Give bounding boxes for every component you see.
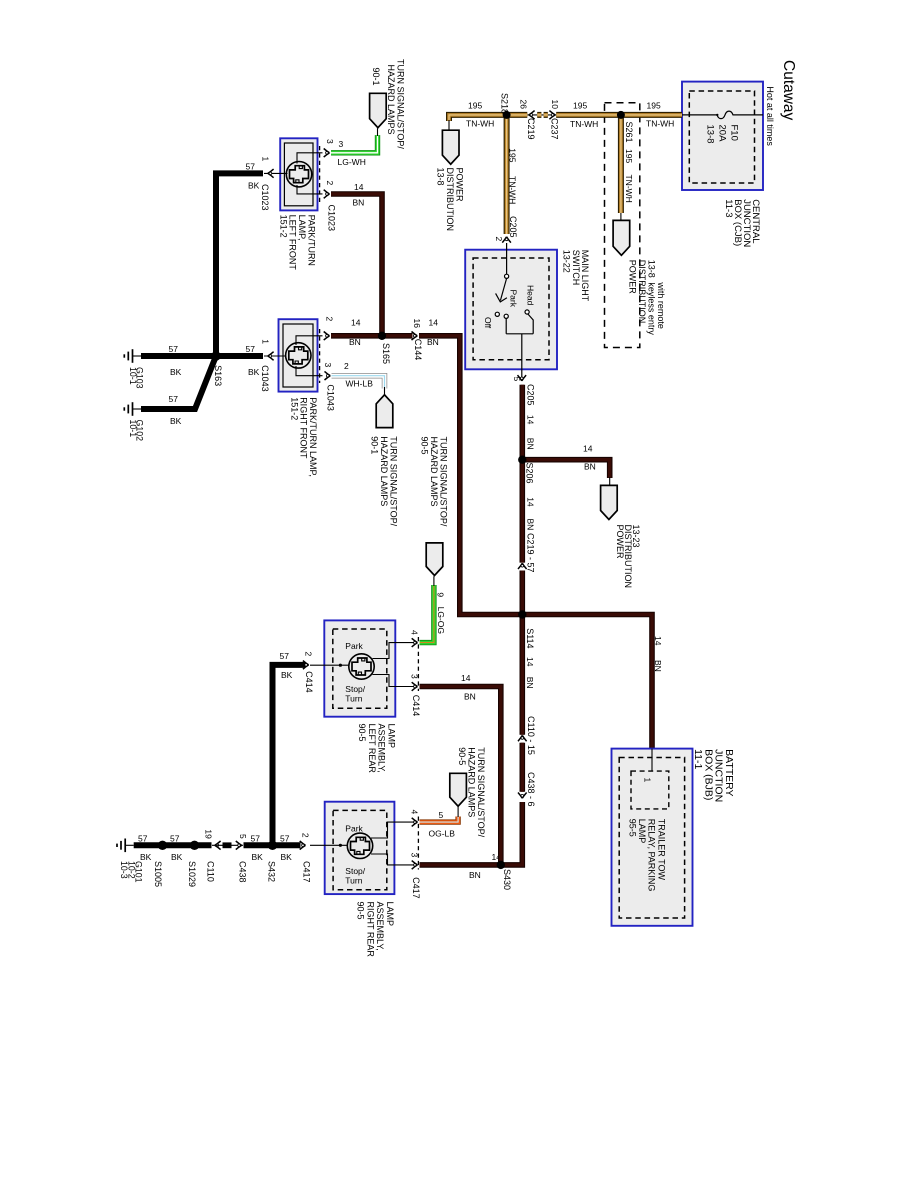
svg-text:C414: C414 (411, 695, 421, 717)
svg-text:BN: BN (525, 438, 535, 450)
lamp assembly right rear box (325, 802, 395, 894)
svg-text:13-22: 13-22 (561, 250, 571, 273)
svg-text:TURN SIGNAL/STOP/: TURN SIGNAL/STOP/ (396, 59, 406, 149)
splice S218 (503, 111, 511, 119)
svg-text:11-3: 11-3 (723, 199, 734, 217)
off-page arrow turn signal 90-1a (370, 93, 387, 127)
svg-text:195: 195 (468, 101, 482, 111)
svg-text:C417: C417 (411, 877, 421, 899)
pin1 lead leftfront (264, 172, 288, 174)
lamp rightrear pin4 link (371, 822, 414, 838)
connector C1043 pin 3 (325, 371, 331, 380)
svg-text:151-2: 151-2 (289, 397, 299, 420)
svg-text:Park: Park (508, 290, 518, 308)
svg-text:TURN SIGNAL/STOP/: TURN SIGNAL/STOP/ (476, 747, 486, 837)
svg-text:POWER: POWER (615, 525, 625, 560)
svg-text:S261: S261 (624, 122, 634, 143)
svg-text:57: 57 (246, 344, 256, 354)
connector C414 pin 3 (412, 682, 418, 691)
connector C1023 pin 1 (268, 169, 274, 178)
svg-text:S432: S432 (267, 861, 277, 882)
switch output lead (521, 334, 523, 377)
svg-text:BN: BN (584, 462, 596, 472)
svg-text:S206: S206 (524, 463, 534, 484)
svg-text:14: 14 (525, 415, 535, 425)
dashed box with remote keyless entry (605, 103, 640, 348)
svg-text:Turn: Turn (345, 694, 362, 704)
svg-text:C110 - 15: C110 - 15 (526, 716, 536, 755)
svg-text:11-1: 11-1 (692, 749, 704, 769)
lamp leftrear pin3 link (373, 675, 415, 687)
BJB internal lead (651, 749, 653, 772)
central junction box (CJB) (682, 82, 763, 190)
connector C237 (549, 111, 555, 120)
connector C205 pin 5 (518, 375, 527, 381)
fuse F10 element (682, 111, 763, 119)
svg-text:HAZARD LAMPS: HAZARD LAMPS (386, 65, 396, 135)
svg-text:OG-LB: OG-LB (429, 829, 456, 839)
lead to turnsignal arrow 90-5b (457, 807, 459, 817)
svg-text:C237: C237 (550, 118, 560, 140)
svg-text:TN-WH: TN-WH (507, 176, 517, 204)
svg-text:14: 14 (429, 318, 439, 328)
wire 195 TN-WH CJB to C237 (556, 112, 682, 118)
svg-text:BK: BK (171, 852, 183, 862)
svg-text:20A: 20A (717, 125, 728, 143)
lamp rightfront pin2 link (296, 336, 323, 345)
svg-text:95-5: 95-5 (628, 819, 638, 837)
thin line through C110/C438 (212, 844, 243, 846)
wire 3 LG-WH (331, 135, 378, 153)
svg-text:BN: BN (464, 691, 476, 701)
splice dot rightrear (339, 844, 342, 847)
svg-text:S1029: S1029 (187, 861, 197, 887)
park/turn lamp left front box (280, 138, 317, 210)
svg-text:5: 5 (238, 834, 248, 839)
svg-text:195: 195 (507, 148, 517, 162)
svg-text:90-1: 90-1 (370, 436, 380, 454)
svg-text:HAZARD LAMPS: HAZARD LAMPS (466, 747, 476, 817)
ground G103 (124, 349, 141, 363)
wire 2 WH-LB (332, 376, 385, 389)
svg-text:BN: BN (469, 870, 481, 880)
svg-text:C1043: C1043 (260, 365, 270, 392)
wire 14 BN S165 to C144 (382, 333, 413, 339)
svg-text:C438: C438 (237, 861, 247, 883)
switch input lead (506, 243, 508, 274)
wire 14 BN rightfront pin2 (331, 333, 382, 339)
svg-text:13-8: 13-8 (705, 125, 716, 144)
wire 14 BN C438-6 to S430 (420, 802, 523, 865)
svg-text:90-5: 90-5 (357, 724, 367, 742)
connector C1043 pin 1 (268, 352, 274, 361)
lamp leftrear pin4 link (373, 643, 415, 659)
park contact lead (505, 319, 507, 334)
wire 57 BK S163 to G102 (141, 356, 216, 409)
svg-text:BN: BN (349, 337, 361, 347)
svg-text:S165: S165 (381, 343, 391, 364)
svg-text:57: 57 (170, 833, 180, 843)
svg-text:Hot at all times: Hot at all times (765, 86, 775, 146)
switch contact Park (504, 314, 508, 318)
ground G101 (117, 839, 134, 853)
svg-text:Head: Head (525, 285, 535, 306)
lead to power dist 13-23 arrow (609, 477, 611, 485)
svg-text:with remote: with remote (656, 281, 666, 329)
svg-text:26: 26 (518, 100, 528, 110)
svg-text:90-5: 90-5 (457, 747, 467, 765)
svg-text:90-5: 90-5 (420, 437, 430, 455)
svg-text:3: 3 (409, 853, 419, 858)
connector C144 (412, 332, 418, 341)
svg-text:14: 14 (525, 497, 535, 507)
svg-text:2: 2 (325, 317, 335, 322)
svg-text:BK: BK (170, 367, 182, 377)
svg-text:1: 1 (260, 339, 270, 344)
svg-text:90-5: 90-5 (356, 902, 366, 920)
svg-text:BK: BK (248, 367, 260, 377)
wire 14 BN C205 to S206 (519, 385, 525, 460)
svg-text:HAZARD LAMPS: HAZARD LAMPS (429, 437, 439, 507)
svg-text:C144: C144 (413, 339, 423, 361)
wire 14 BN leftrear pin3 (420, 687, 501, 863)
wire 57 BK S163 to rightfront (219, 353, 263, 359)
wire 14 BN S206 branch (522, 460, 609, 478)
lamp leftfront pin2 link (297, 185, 323, 194)
svg-text:TN-WH: TN-WH (624, 175, 634, 203)
svg-text:LAMP: LAMP (637, 819, 647, 844)
svg-text:90-1: 90-1 (371, 68, 381, 86)
svg-text:Park: Park (345, 824, 363, 834)
wire 195 TN-WH S261 drop (618, 115, 624, 213)
svg-text:5: 5 (512, 377, 522, 382)
svg-text:ASSEMBLY,: ASSEMBLY, (377, 724, 387, 773)
lamp leftfront pin3 link (297, 153, 323, 164)
lead to power dist arrow2 (620, 213, 622, 220)
wire 14 BN pin2 leftfront (331, 194, 382, 336)
splice S1029 (190, 841, 199, 850)
svg-text:Stop/: Stop/ (345, 866, 365, 876)
head contact lead (528, 314, 533, 334)
svg-text:10-1: 10-1 (128, 420, 138, 438)
svg-text:Cutaway: Cutaway (780, 60, 797, 121)
svg-text:LEFT REAR: LEFT REAR (367, 724, 377, 774)
svg-text:5: 5 (439, 810, 444, 820)
off-page arrow turn signal 90-5b (450, 773, 467, 806)
connector C438-6 (518, 793, 527, 799)
svg-text:57: 57 (169, 394, 179, 404)
svg-text:57: 57 (280, 651, 290, 661)
lamp symbol left front (286, 162, 311, 187)
connector C110 (215, 841, 221, 850)
svg-text:4: 4 (409, 810, 419, 815)
lamp rightfront pin3 link (296, 366, 323, 376)
splice dot leftrear (339, 664, 342, 667)
svg-text:TN-WH: TN-WH (570, 119, 598, 129)
lamp assembly left rear box (324, 620, 395, 716)
wire 14 BN S114 to BJB (522, 615, 652, 749)
connector C1043 pin 2 (324, 332, 330, 341)
svg-text:14: 14 (653, 636, 663, 646)
connector C1023 pin 3 (324, 149, 330, 158)
off-page arrow power distribution (top) (442, 130, 459, 164)
svg-text:10-3: 10-3 (119, 861, 129, 879)
wire 57 BK S432 to C414 (273, 665, 306, 842)
svg-text:1: 1 (643, 778, 653, 783)
lamp symbol right front (286, 343, 311, 368)
switch contact Off (495, 312, 499, 316)
wire 195 TN-WH corner to S218 (449, 115, 507, 121)
svg-text:1: 1 (260, 157, 270, 162)
svg-text:14: 14 (461, 673, 471, 683)
connector C417 pin 3 (412, 861, 418, 870)
wire 57 BK C438 to C417 (244, 842, 301, 848)
svg-text:9: 9 (436, 592, 446, 597)
main light switch box (465, 250, 557, 370)
connector C205 pin 2 (502, 237, 511, 243)
off-page arrow power distribution (keyless) (613, 220, 630, 255)
svg-text:10: 10 (550, 100, 560, 110)
BK dash segment (223, 842, 232, 848)
svg-text:TRAILER TOW: TRAILER TOW (656, 819, 666, 881)
svg-text:57: 57 (280, 833, 290, 843)
off-page arrow turn signal 90-1b (376, 395, 393, 428)
svg-text:195: 195 (647, 101, 661, 111)
thin line through C237/C219 (528, 114, 557, 116)
svg-text:TURN SIGNAL/STOP/: TURN SIGNAL/STOP/ (389, 436, 399, 526)
connector C110-15 (518, 735, 527, 741)
svg-text:BK: BK (170, 416, 182, 426)
svg-text:WH-LB: WH-LB (346, 379, 374, 389)
svg-text:BK: BK (281, 670, 293, 680)
switch blade arrowhead (496, 293, 507, 302)
ground G102 (124, 402, 141, 416)
splice S1005 (158, 841, 167, 850)
connector C1043 dashed line (319, 329, 321, 383)
wire 9 LG-OG (420, 585, 434, 643)
svg-text:DISTRIBUTION: DISTRIBUTION (637, 260, 647, 324)
svg-text:57: 57 (169, 344, 179, 354)
wire 14 BN S114 down (519, 615, 525, 735)
svg-text:C1043: C1043 (326, 384, 336, 411)
connector C414 pin 2 (303, 661, 309, 670)
wire 57 BK G101 to C110 (134, 842, 212, 848)
svg-text:F10: F10 (729, 125, 740, 141)
svg-text:14: 14 (354, 182, 364, 192)
svg-text:LG-WH: LG-WH (338, 157, 366, 167)
park/turn lamp right front box (279, 319, 318, 391)
svg-text:Turn: Turn (345, 876, 362, 886)
splice S165 (378, 332, 386, 340)
connector C1023 dashed line (319, 146, 321, 202)
svg-text:C1023: C1023 (327, 205, 337, 232)
svg-text:S114: S114 (525, 628, 535, 648)
wire 57 BK S163 to G103 (141, 353, 216, 359)
svg-text:C219 - 57: C219 - 57 (526, 533, 536, 573)
battery junction box (BJB) (612, 749, 693, 926)
wire 14 BN to C438-6 (519, 743, 525, 792)
svg-text:C219: C219 (526, 118, 536, 140)
svg-text:C1023: C1023 (260, 184, 270, 211)
TN-WH dash segment a (537, 112, 541, 118)
switch blade (500, 278, 506, 300)
svg-text:C414: C414 (304, 671, 314, 693)
svg-text:BK: BK (248, 180, 260, 190)
svg-text:S163: S163 (213, 365, 223, 386)
svg-text:TN-WH: TN-WH (646, 119, 674, 129)
svg-text:13-8: 13-8 (647, 260, 657, 278)
splice S206 (518, 456, 526, 464)
svg-text:19: 19 (204, 829, 214, 839)
svg-text:BK: BK (281, 852, 293, 862)
connector C414 dashed line (417, 637, 419, 691)
svg-text:151-2: 151-2 (278, 215, 288, 238)
svg-text:57: 57 (138, 833, 148, 843)
svg-text:HAZARD LAMPS: HAZARD LAMPS (379, 436, 389, 506)
svg-text:Park: Park (345, 641, 363, 651)
svg-text:195: 195 (573, 101, 587, 111)
connector C414 pin 4 (412, 638, 418, 647)
lead to turnsignal arrow 90-1a (377, 128, 379, 136)
svg-text:3: 3 (339, 139, 344, 149)
pin2 lead rightrear (310, 844, 347, 846)
svg-text:C205: C205 (508, 216, 518, 238)
switch output bar (506, 333, 533, 335)
svg-text:2: 2 (325, 181, 335, 186)
svg-text:2: 2 (301, 833, 311, 838)
svg-text:BK: BK (252, 852, 264, 862)
connector C438 (236, 841, 242, 850)
wire 5 OG-LB (420, 817, 459, 823)
svg-text:14: 14 (351, 318, 361, 328)
lead to turnsignal arrow 90-1b (384, 387, 386, 396)
switch contact Head (525, 310, 529, 314)
connector C219 (529, 111, 535, 120)
connector C417 pin 2 (300, 841, 306, 850)
lamp rightrear pin3 link (371, 854, 414, 865)
svg-text:C417: C417 (302, 861, 312, 883)
wire 195 TN-WH S218 to C219 (507, 112, 528, 118)
connector C219-57 (518, 563, 527, 569)
svg-text:BN: BN (525, 677, 535, 689)
wire 57 BK leftfront pin1 (216, 173, 263, 356)
lamp symbol left rear (349, 654, 374, 679)
svg-text:S430: S430 (502, 869, 512, 890)
splice S114 (518, 610, 526, 618)
splice S261 (617, 111, 625, 119)
off-page arrow power distribution 13-23 (601, 485, 618, 519)
svg-text:BN: BN (653, 660, 663, 672)
svg-text:14: 14 (525, 657, 535, 667)
svg-text:BN: BN (353, 198, 365, 208)
lead to power dist arrow1 (448, 120, 450, 130)
svg-text:195: 195 (624, 149, 634, 163)
svg-text:ASSEMBLY,: ASSEMBLY, (375, 902, 385, 951)
splice S163 (211, 351, 220, 360)
connector C417 pin 4 (412, 818, 418, 827)
svg-text:14: 14 (583, 444, 593, 454)
svg-text:LAMP: LAMP (385, 902, 395, 927)
wire 195 TN-WH S218 to C205 (504, 115, 510, 234)
svg-text:57: 57 (246, 161, 256, 171)
svg-text:3: 3 (323, 363, 333, 368)
svg-text:C205: C205 (526, 384, 536, 406)
svg-text:POWER: POWER (627, 260, 637, 295)
svg-text:Stop/: Stop/ (345, 684, 365, 694)
svg-text:13-8: 13-8 (436, 168, 446, 186)
svg-text:2: 2 (344, 361, 349, 371)
connector C1023 pin 2 (324, 190, 330, 199)
svg-text:16: 16 (412, 319, 422, 329)
svg-text:LAMP: LAMP (387, 724, 397, 749)
pin2 lead leftrear (310, 664, 349, 666)
lamp symbol right rear (347, 833, 372, 858)
svg-text:Off: Off (483, 317, 493, 329)
svg-text:2: 2 (303, 652, 313, 657)
svg-text:4: 4 (409, 630, 419, 635)
svg-text:BN: BN (525, 519, 535, 531)
svg-text:C110: C110 (206, 861, 216, 882)
lead to turnsignal arrow 90-5a (433, 576, 435, 586)
svg-text:BN: BN (427, 337, 439, 347)
wire 14 BN S206 to C219-57 (519, 460, 525, 563)
svg-text:S218: S218 (500, 93, 510, 114)
TN-WH dash segment b (544, 112, 548, 118)
svg-text:TURN SIGNAL/STOP/: TURN SIGNAL/STOP/ (439, 437, 449, 527)
svg-text:LG-OG: LG-OG (436, 607, 446, 634)
svg-text:TN-WH: TN-WH (466, 119, 494, 129)
svg-text:S1005: S1005 (153, 861, 163, 887)
BJB pin 1 dashed box (631, 771, 669, 809)
svg-text:57: 57 (251, 833, 261, 843)
connector C417 dashed line (417, 817, 419, 870)
svg-text:RELAY, PARKING: RELAY, PARKING (647, 819, 657, 892)
switch pivot contact (505, 274, 509, 278)
off-page arrow turn signal 90-5a (426, 543, 443, 576)
svg-text:2: 2 (494, 237, 504, 242)
splice S432 (268, 841, 277, 850)
pin1 lead rightfront (264, 355, 286, 357)
splice S430 (497, 861, 505, 869)
wire 14 BN C219-57 to S114 (519, 571, 525, 615)
svg-text:3: 3 (325, 139, 335, 144)
wire 14 BN C144 to S114 (419, 336, 522, 615)
svg-text:RIGHT REAR: RIGHT REAR (365, 902, 375, 958)
svg-text:10-1: 10-1 (128, 367, 138, 385)
svg-text:3: 3 (409, 674, 419, 679)
svg-text:C438 - 6: C438 - 6 (526, 772, 536, 807)
